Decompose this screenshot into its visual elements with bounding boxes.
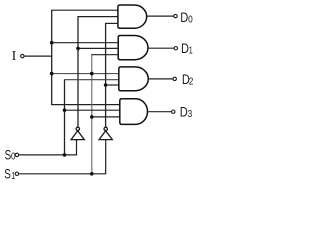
svg-text:1: 1	[11, 171, 15, 181]
terminal circle I	[21, 54, 24, 57]
svg-text:D: D	[180, 9, 188, 25]
svg-text:D: D	[180, 104, 188, 120]
junction dot S1-bus/G4	[90, 115, 94, 119]
junction dot S0-branch/S0 line	[63, 153, 67, 157]
junction dot S0'-bus/G2	[76, 47, 80, 51]
wire G4 input1 horizontal y=104.6	[51, 104, 120, 106]
wire G1 input3 horizontal y=23.4	[105, 22, 118, 24]
svg-text:S: S	[4, 166, 11, 181]
wire G2 input1 horizontal y=42.7	[52, 42, 119, 44]
wire G4 input2 horizontal y=110.2	[65, 109, 120, 111]
svg-text:1: 1	[189, 44, 193, 56]
wire I-bus vertical	[51, 10, 53, 104]
terminal circle S0	[15, 153, 18, 156]
wire G2 input3 horizontal y=54.7	[91, 54, 118, 56]
svg-text:I: I	[12, 49, 17, 64]
inverter U6 (S1')	[99, 127, 112, 139]
junction dot S0-branch/G4	[63, 108, 67, 112]
wire D1 output	[148, 47, 174, 49]
wire S1-bus vertical x=91.8	[91, 55, 93, 174]
wire S0'-bus vertical x=78	[77, 17, 79, 128]
junction dot S1-bus/S1 line	[90, 172, 94, 176]
svg-text:D: D	[181, 40, 189, 56]
junction dot I-bus/G3	[50, 72, 54, 76]
junction dot S1-bus/G3 line	[90, 72, 94, 76]
wire S0 stub	[19, 140, 77, 155]
and-gate U4 (D3)	[120, 99, 148, 125]
and-gate U1 (D0)	[118, 5, 147, 28]
wire D0 output	[147, 15, 174, 17]
terminal circle D0	[174, 14, 177, 17]
wire G4 input3 horizontal y=116.9	[92, 116, 120, 118]
svg-text:3: 3	[188, 108, 193, 120]
svg-text:0: 0	[11, 152, 16, 163]
wire input I stub	[24, 55, 52, 57]
terminal circle S1	[15, 172, 18, 175]
terminal circle D2	[173, 77, 176, 80]
wire G3 input1 horizontal y=73.6	[52, 73, 119, 75]
wire S0-branch vertical x=64.5	[64, 80, 66, 155]
svg-text:0: 0	[188, 14, 193, 26]
terminal circle D3	[172, 110, 175, 113]
wire G3 input2 horizontal y=79.7	[64, 79, 119, 81]
junction dot S1'-bus/G3	[104, 83, 108, 87]
inverter U5 (S0')	[71, 127, 84, 141]
svg-text:2: 2	[189, 75, 194, 87]
wire G1 input1 horizontal y=10.2	[51, 9, 118, 11]
junction dot I-bus/G2	[50, 41, 54, 45]
wire S1 stub	[19, 140, 106, 174]
and-gate U3 (D2)	[119, 67, 148, 91]
wire G3 input3 horizontal y=85	[106, 84, 119, 86]
and-gate U2 (D1)	[118, 36, 148, 60]
wire D2 output	[148, 78, 173, 80]
terminal circle D1	[174, 47, 177, 50]
wire D3 output	[148, 111, 172, 113]
wire G2 input2 horizontal y=48.4	[78, 47, 118, 49]
wire G1 input2 horizontal y=16.6	[77, 16, 118, 18]
wire S1'-bus vertical x=105.6	[105, 23, 107, 127]
